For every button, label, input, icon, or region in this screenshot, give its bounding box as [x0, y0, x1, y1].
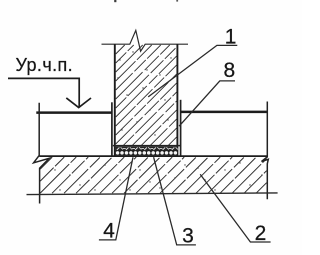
slab 2 concrete hatch: [40, 157, 266, 193]
svg-text:3: 3: [182, 224, 194, 247]
svg-text:2: 2: [255, 222, 267, 245]
floor top line right: [181, 111, 268, 114]
column top break line: [102, 30, 189, 51]
svg-text:4: 4: [103, 219, 115, 242]
level mark underline and stem: [8, 78, 79, 106]
waterproofing band 3 (stipple): [116, 146, 178, 150]
column left face: [114, 44, 116, 156]
svg-text:8: 8: [224, 59, 236, 82]
floor top line left: [36, 111, 112, 114]
concrete speck dots: [54, 51, 262, 190]
column continuation speck left: [114, 0, 116, 2]
left cut edge with break zigzag: [34, 103, 50, 204]
label 4 leader: [99, 157, 133, 240]
elastic pad band 4 (circle chain): [116, 151, 178, 156]
svg-text:1: 1: [225, 26, 237, 49]
label 3 leader: [154, 157, 196, 245]
svg-text:Ур.ч.п.: Ур.ч.п.: [16, 55, 74, 75]
column continuation speck right: [176, 0, 178, 2]
level mark arrow V: [66, 98, 91, 108]
floor edge right of column (seam 8 gap): [180, 100, 182, 156]
column 1 concrete hatch: [116, 45, 177, 145]
label 2 leader: [200, 174, 270, 242]
pad top line: [113, 145, 180, 147]
label 1 leader: [148, 45, 237, 97]
label 8 leader: [179, 81, 235, 126]
right cut edge with break zigzag: [262, 102, 269, 200]
floor edge left of column (seam 8 gap): [111, 102, 113, 156]
slab bottom line: [27, 193, 278, 195]
column right face: [176, 44, 178, 156]
slab top line: [39, 155, 267, 157]
